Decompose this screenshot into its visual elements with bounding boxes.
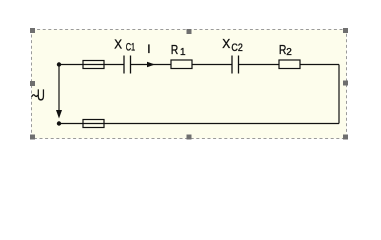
wire: C2 to R2 segment xyxy=(239,64,280,66)
resistor R2 xyxy=(279,60,300,69)
resistor R1 xyxy=(171,60,192,69)
source voltage arrow (downward) xyxy=(56,110,62,119)
fuse (top wire, unlabeled) xyxy=(83,61,104,69)
wire: R1 to C2 segment xyxy=(192,64,232,66)
svg-text:I: I xyxy=(147,42,150,56)
fuse (bottom wire, unlabeled) xyxy=(83,120,104,128)
wire: left vertical source branch xyxy=(58,65,60,113)
svg-text:2: 2 xyxy=(286,47,292,58)
svg-text:U: U xyxy=(37,87,45,104)
current direction arrow I xyxy=(147,62,155,68)
svg-text:C2: C2 xyxy=(231,42,242,54)
svg-text:1: 1 xyxy=(180,47,186,58)
wire: right vertical segment xyxy=(338,65,340,124)
wire: bottom segment (corner to bottom node, through fuse) xyxy=(59,123,339,125)
label ~U (source) xyxy=(32,95,38,97)
svg-text:R: R xyxy=(279,42,287,57)
svg-text:C1: C1 xyxy=(126,42,135,54)
node: bottom-left junction xyxy=(57,121,61,125)
wire: C1 to R1 segment xyxy=(131,64,172,66)
node: top-left junction xyxy=(57,62,61,66)
wire: R2 to top-right corner xyxy=(300,64,339,66)
svg-text:X: X xyxy=(222,36,230,51)
svg-text:R: R xyxy=(171,42,179,57)
capacitor XC2 plates xyxy=(232,56,239,74)
wire: top-left segment (node to C1 left plate, through fuse) xyxy=(59,64,124,66)
capacitor XC1 plates xyxy=(124,56,131,74)
svg-text:X: X xyxy=(114,36,122,51)
